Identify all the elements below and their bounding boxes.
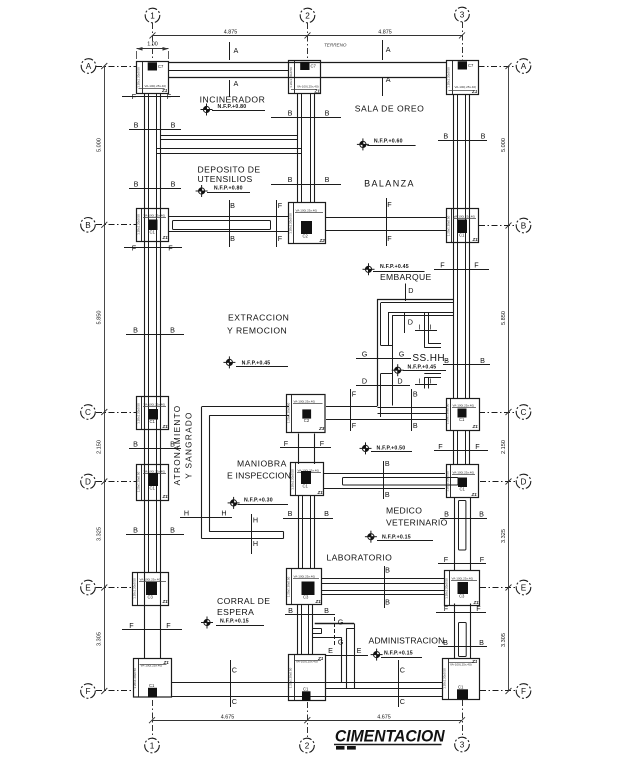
svg-text:BALANZA: BALANZA xyxy=(364,178,415,188)
svg-text:ESPERA: ESPERA xyxy=(217,607,254,617)
section marker F-F below E3 xyxy=(436,612,486,614)
section marker A-A left (top wall) xyxy=(229,42,231,60)
SS.HH. toilet partition lower xyxy=(424,377,441,379)
svg-text:Z1: Z1 xyxy=(317,490,324,495)
footing/column B1 (grid1-row B) C1 Z1 xyxy=(137,209,169,242)
wall maniobra pen west xyxy=(201,407,203,539)
section marker B-B grid1 mid xyxy=(126,334,184,336)
svg-text:F: F xyxy=(438,442,443,451)
svg-text:5.000: 5.000 xyxy=(97,138,103,152)
footing/column B3 (grid3-row B) C1 Z1 xyxy=(447,209,479,243)
svg-text:2.150: 2.150 xyxy=(501,440,507,454)
svg-text:B: B xyxy=(288,509,293,518)
section marker I-I SS.HH. lower xyxy=(415,384,437,386)
svg-text:1.20x1.20x0.50: 1.20x1.20x0.50 xyxy=(136,471,140,492)
svg-text:F: F xyxy=(521,687,526,696)
svg-text:5.000: 5.000 xyxy=(501,138,507,152)
section marker F-F below D3 xyxy=(434,450,488,452)
svg-text:F: F xyxy=(320,439,325,448)
svg-text:F: F xyxy=(284,439,289,448)
svg-text:N.F.P.+0.15: N.F.P.+0.15 xyxy=(382,535,411,541)
grid bubble C right xyxy=(516,405,531,420)
footing/column C1 (grid1-row C) C1 Z1 xyxy=(137,397,169,430)
svg-text:MANIOBRA: MANIOBRA xyxy=(237,459,287,469)
wall admin west (double) xyxy=(354,624,356,690)
footing/column C2 (grid2-row C) C2 Z3 xyxy=(287,395,326,433)
svg-text:VA-100(.25x.40): VA-100(.25x.40) xyxy=(296,209,318,213)
svg-text:VA-100(.25x.40): VA-100(.25x.40) xyxy=(450,663,472,667)
svg-text:F: F xyxy=(166,621,171,630)
svg-text:B: B xyxy=(288,606,293,615)
svg-text:CORRAL DE: CORRAL DE xyxy=(217,596,270,606)
svg-text:C1: C1 xyxy=(460,487,466,492)
svg-text:G: G xyxy=(338,618,344,627)
svg-text:F: F xyxy=(132,92,137,101)
svg-text:F: F xyxy=(132,244,137,253)
svg-text:C: C xyxy=(232,697,237,706)
grid line 1 bottom stub xyxy=(152,700,154,738)
svg-text:1.20x1.20x0.50: 1.20x1.20x0.50 xyxy=(446,215,450,236)
svg-text:F: F xyxy=(440,261,445,270)
svg-text:Y REMOCION: Y REMOCION xyxy=(227,326,287,336)
svg-text:1.20x1.20x0.50: 1.20x1.20x0.50 xyxy=(445,403,449,424)
footing/column E3 (grid3-row E) C3 Z1 xyxy=(445,571,480,606)
grid line A right stub xyxy=(479,66,517,68)
grid line 1 top stub xyxy=(152,23,154,60)
svg-text:1.20x1.20x0.50: 1.20x1.20x0.50 xyxy=(136,214,140,235)
svg-text:F: F xyxy=(278,234,283,243)
svg-text:1.20x1.20x0.50: 1.20x1.20x0.50 xyxy=(136,403,140,424)
svg-text:5.850: 5.850 xyxy=(501,311,507,325)
grid line D left stub xyxy=(96,481,137,483)
wall admin jog lower vertical xyxy=(341,637,343,682)
grid bubble C left xyxy=(81,405,96,420)
svg-text:F: F xyxy=(444,604,449,613)
svg-text:4.675: 4.675 xyxy=(221,715,235,721)
svg-text:N.F.P.+0.80: N.F.P.+0.80 xyxy=(218,104,247,110)
grid line C left stub xyxy=(96,412,137,414)
svg-text:Z1: Z1 xyxy=(472,424,479,429)
svg-text:B: B xyxy=(324,509,329,518)
svg-text:VA-100(.25x.40): VA-100(.25x.40) xyxy=(144,214,166,218)
section marker B-B row E wall xyxy=(384,566,386,608)
grid bubble 2 bottom xyxy=(300,738,315,753)
grid bubble D left xyxy=(81,474,96,489)
grid bubble 3 top xyxy=(455,7,470,22)
elevation N.F.P.+0.15 administracion xyxy=(371,649,383,661)
svg-text:H: H xyxy=(221,509,226,518)
svg-text:3.305: 3.305 xyxy=(501,633,507,647)
svg-text:C3: C3 xyxy=(459,594,465,599)
svg-text:1.20x1.20x0.50: 1.20x1.20x0.50 xyxy=(286,576,290,597)
section marker B-B grid3 E-F xyxy=(438,646,487,648)
svg-text:H: H xyxy=(184,509,189,518)
svg-text:F: F xyxy=(475,442,480,451)
svg-text:F: F xyxy=(167,92,172,101)
grid bubble 3 bottom xyxy=(455,737,470,752)
wall admin jog upper horizontal xyxy=(315,623,354,625)
section marker B-B grid1 below C1 xyxy=(129,448,181,450)
svg-text:3.325: 3.325 xyxy=(501,529,507,543)
svg-text:3.325: 3.325 xyxy=(97,527,103,541)
svg-text:SALA DE OREO: SALA DE OREO xyxy=(355,104,425,114)
svg-text:C2: C2 xyxy=(304,418,310,423)
elevation N.F.P.+0.80 deposito xyxy=(196,185,208,197)
svg-text:B: B xyxy=(134,121,139,130)
svg-text:B: B xyxy=(85,221,91,230)
svg-text:1.20x1.20x0.50: 1.20x1.20x0.50 xyxy=(137,67,141,88)
svg-text:1.20x1.20x0.50: 1.20x1.20x0.50 xyxy=(289,667,293,688)
svg-text:B: B xyxy=(521,222,527,231)
svg-text:LABORATORIO: LABORATORIO xyxy=(327,553,393,563)
section marker B-B grid2 second xyxy=(271,184,341,186)
svg-text:C1: C1 xyxy=(303,687,309,692)
svg-text:B: B xyxy=(479,638,484,647)
svg-text:Z1: Z1 xyxy=(471,89,478,94)
svg-text:2.150: 2.150 xyxy=(97,440,103,454)
svg-text:C: C xyxy=(232,666,237,675)
svg-text:C1: C1 xyxy=(303,484,309,489)
wall row C grid2-grid3 footing lines xyxy=(326,406,377,408)
svg-text:F: F xyxy=(444,555,449,564)
section marker B-B grid1 lower xyxy=(126,534,184,536)
wall SS.HH. west inner xyxy=(388,312,390,346)
svg-text:CIMENTACION: CIMENTACION xyxy=(335,727,445,745)
grid bubble F right xyxy=(516,684,531,699)
svg-text:VA-100(.25x.40): VA-100(.25x.40) xyxy=(454,215,476,219)
grid line 2 bottom stub xyxy=(307,702,309,738)
svg-text:Z1: Z1 xyxy=(162,599,169,604)
svg-text:D: D xyxy=(408,286,413,295)
svg-text:D: D xyxy=(85,478,91,487)
elevation N.F.P.+0.50 laboratorio zone xyxy=(360,442,372,454)
top dimension line 4.875 + 4.875 xyxy=(153,35,463,37)
elevation N.F.P.+0.60 sala de oreo xyxy=(357,138,369,150)
svg-text:Z1: Z1 xyxy=(315,599,322,604)
wall row E grid2-grid3 (4 lines) xyxy=(322,578,445,580)
wall grid 2 segment A-B (4 lines) xyxy=(297,94,299,203)
svg-text:VA-100(.25x.40): VA-100(.25x.40) xyxy=(453,471,475,475)
svg-text:3: 3 xyxy=(460,741,465,750)
svg-text:N.F.P.+0.45: N.F.P.+0.45 xyxy=(408,364,437,370)
svg-text:N.F.P.+0.80: N.F.P.+0.80 xyxy=(214,186,243,192)
right vertical dimension line xyxy=(508,66,510,691)
grid line A left stub xyxy=(96,66,137,68)
svg-text:B: B xyxy=(171,180,176,189)
footing/column D2 (grid2-row D) C1 Z1 xyxy=(291,463,324,496)
svg-text:Y SANGRADO: Y SANGRADO xyxy=(184,411,193,478)
elevation N.F.P.+0.30 maniobra xyxy=(228,497,240,509)
svg-text:2: 2 xyxy=(305,742,310,751)
grid bubble 2 top xyxy=(300,8,315,23)
grid bubble 1 top xyxy=(145,8,160,23)
svg-text:C1: C1 xyxy=(458,685,464,690)
svg-text:4.875: 4.875 xyxy=(224,29,238,35)
svg-text:ATRONAMIENTO: ATRONAMIENTO xyxy=(173,405,182,486)
svg-text:E INSPECCION: E INSPECCION xyxy=(227,471,291,481)
svg-text:N.F.P.+0.15: N.F.P.+0.15 xyxy=(384,650,413,656)
section marker B-B row C wall xyxy=(411,389,413,431)
svg-text:Z1: Z1 xyxy=(472,237,479,242)
left vertical dimension line xyxy=(104,66,106,691)
svg-text:A: A xyxy=(234,46,239,55)
wall grid 3 segment A-C (4 lines) xyxy=(453,95,455,399)
svg-text:1.20x1.20x0.50: 1.20x1.20x0.50 xyxy=(443,668,447,689)
svg-text:A: A xyxy=(234,79,239,88)
wall grid 2 segment E-F (4 lines) xyxy=(297,605,299,655)
svg-text:F: F xyxy=(352,421,357,430)
svg-text:A: A xyxy=(521,62,527,71)
grid line F left stub xyxy=(96,690,134,692)
svg-text:G: G xyxy=(399,350,405,359)
dimension 1.00 over footing A1 xyxy=(137,48,169,50)
section marker G-G admin jog xyxy=(334,617,336,646)
section marker B-B grid3 upper xyxy=(438,140,487,142)
svg-text:C7: C7 xyxy=(158,64,164,69)
svg-text:C2: C2 xyxy=(303,234,309,239)
svg-text:EXTRACCION: EXTRACCION xyxy=(228,312,289,322)
svg-text:1.20x1.20x0.50: 1.20x1.20x0.50 xyxy=(444,578,448,599)
svg-text:1: 1 xyxy=(150,742,155,751)
svg-text:MEDICO: MEDICO xyxy=(386,506,422,516)
wall SS.HH. north inner xyxy=(389,312,454,314)
wall stub notch on grid 2 xyxy=(313,628,322,630)
section marker C-C row F wall left xyxy=(230,660,232,707)
svg-text:VA-100(.25x.40): VA-100(.25x.40) xyxy=(452,577,474,581)
tie beam row D grid2-grid3 with inner beam xyxy=(324,473,445,475)
svg-text:E: E xyxy=(521,584,527,593)
section marker B-B grid2 D-E xyxy=(283,518,333,520)
svg-text:G: G xyxy=(338,638,344,647)
wall grid 1 west exterior (4 lines) xyxy=(144,94,146,660)
svg-text:F: F xyxy=(387,234,392,243)
grid bubble 1 bottom xyxy=(145,738,160,753)
grid bubble E left xyxy=(81,580,96,595)
footing/column F3 (grid3-row F) C1 Z1 xyxy=(443,659,480,700)
svg-text:B: B xyxy=(133,440,138,449)
section marker F-F footing E1 xyxy=(122,629,182,631)
svg-text:TERRENO: TERRENO xyxy=(324,43,347,48)
svg-text:C: C xyxy=(400,666,405,675)
section marker B-B grid3 D-E xyxy=(440,518,487,520)
svg-text:EMBARQUE: EMBARQUE xyxy=(380,272,432,282)
grid bubble E right xyxy=(516,580,531,595)
svg-text:Z1: Z1 xyxy=(314,89,321,94)
svg-text:ADMINISTRACION: ADMINISTRACION xyxy=(369,636,445,646)
svg-text:N.F.P.+0.50: N.F.P.+0.50 xyxy=(377,446,406,452)
svg-text:B: B xyxy=(413,390,418,399)
svg-text:3: 3 xyxy=(460,11,465,20)
svg-text:F: F xyxy=(480,555,485,564)
svg-text:Z1: Z1 xyxy=(162,235,169,240)
svg-text:Z1: Z1 xyxy=(163,660,170,665)
wall maniobra pen north (to footing C2) xyxy=(202,406,290,408)
svg-text:A: A xyxy=(86,62,92,71)
svg-text:F: F xyxy=(476,604,481,613)
svg-text:B: B xyxy=(171,121,176,130)
grid line C right stub xyxy=(479,412,516,414)
svg-text:B: B xyxy=(325,109,330,118)
svg-text:Z2: Z2 xyxy=(319,238,326,243)
svg-text:B: B xyxy=(413,421,418,430)
svg-text:C1: C1 xyxy=(459,233,465,238)
footing/column F1 (grid1-row F) C1 Z1 xyxy=(134,659,172,698)
svg-text:G: G xyxy=(362,350,368,359)
footing/column B2 (grid2-row B) C2 Z2 xyxy=(289,203,326,244)
svg-text:F: F xyxy=(474,261,479,270)
svg-text:I: I xyxy=(430,323,432,332)
footing/column E1 (grid1-row E) C3 Z1 xyxy=(133,573,169,606)
footing/column C3 (grid3-row C) C1 Z1 xyxy=(447,399,480,431)
wall grid 2 segment C-D (2 lines) xyxy=(298,434,300,465)
svg-text:F: F xyxy=(278,201,283,210)
svg-text:D: D xyxy=(362,377,367,386)
svg-text:B: B xyxy=(385,566,390,575)
wall maniobra pen south xyxy=(209,531,283,533)
svg-text:B: B xyxy=(479,510,484,519)
svg-text:B: B xyxy=(288,109,293,118)
wall grid 2 segment D-E (4 lines) xyxy=(298,496,300,569)
elevation N.F.P.+0.15 medico xyxy=(365,531,377,543)
svg-text:C: C xyxy=(521,408,527,417)
svg-text:1.00: 1.00 xyxy=(147,41,158,47)
section marker G-G SS.HH. west xyxy=(356,358,411,360)
section marker F-F grid2 C-D xyxy=(280,447,331,449)
tie beam row B grid1-grid2 with inner beam xyxy=(169,216,289,218)
svg-text:N.F.P.+0.30: N.F.P.+0.30 xyxy=(244,498,273,504)
grid line D right stub xyxy=(480,481,516,483)
svg-text:2: 2 xyxy=(305,12,310,21)
section marker F-F row C wall xyxy=(350,389,352,431)
svg-text:C: C xyxy=(400,697,405,706)
svg-text:C7: C7 xyxy=(311,63,317,68)
svg-text:B: B xyxy=(385,490,390,499)
svg-text:F: F xyxy=(387,200,392,209)
svg-text:E: E xyxy=(328,646,333,655)
svg-text:Z1: Z1 xyxy=(317,656,324,661)
footing/column E2 (grid2-row E) C3 Z1 xyxy=(287,569,322,605)
svg-text:I: I xyxy=(419,323,421,332)
section marker F-F row B beam right xyxy=(386,198,388,246)
tie beam grid 3 segment D-E with inner beam xyxy=(454,497,456,571)
elevation N.F.P.+0.45 embarque xyxy=(363,263,375,275)
svg-text:A: A xyxy=(386,75,391,84)
svg-text:B: B xyxy=(385,598,390,607)
svg-text:C1: C1 xyxy=(459,417,465,422)
section marker B-B grid2 E-F xyxy=(285,614,335,616)
section marker D inside SS.HH. xyxy=(404,313,406,333)
wall SS.HH. south xyxy=(378,407,447,409)
section marker C-C row F wall right xyxy=(398,660,400,707)
section marker E-E admin xyxy=(326,655,368,657)
svg-text:C1: C1 xyxy=(149,683,155,688)
svg-text:B: B xyxy=(230,234,235,243)
svg-text:4.875: 4.875 xyxy=(378,29,392,35)
footing/column A3 (grid3-row A) C7 Z1 xyxy=(447,61,479,95)
section marker A-A right (top wall) xyxy=(382,40,384,60)
footing/column D1 (grid1-row D) C1 Z1 xyxy=(137,465,169,501)
svg-text:VETERINARIO: VETERINARIO xyxy=(386,518,448,528)
svg-text:1: 1 xyxy=(150,12,155,21)
section marker F-F footing A1 xyxy=(122,96,180,98)
grid bubble A right xyxy=(516,59,531,74)
svg-text:Z1: Z1 xyxy=(471,659,478,664)
footing/column A2 (grid2-row A) C7 Z1 xyxy=(289,61,321,94)
svg-text:VA-100(.25x.40): VA-100(.25x.40) xyxy=(144,470,166,474)
svg-text:H: H xyxy=(253,539,258,548)
section marker B-B grid2 upper xyxy=(271,117,341,119)
grid line F right stub xyxy=(480,690,516,692)
svg-text:B: B xyxy=(481,132,486,141)
wall row A exterior (3 lines) xyxy=(169,62,447,64)
section marker F-F footing B1 xyxy=(124,247,182,249)
section marker B-B grid3 at SS.HH. xyxy=(443,364,490,366)
svg-text:C: C xyxy=(85,408,91,417)
bottom dimension line 4.675 + 4.675 xyxy=(152,720,462,722)
footing/column F2 (grid2-row F) C1 Z1 xyxy=(289,655,326,701)
section marker D embarque xyxy=(405,284,407,302)
svg-text:1.20x1.20x0.50: 1.20x1.20x0.50 xyxy=(289,67,293,88)
svg-text:1.20x1.20x0.50: 1.20x1.20x0.50 xyxy=(132,578,136,599)
svg-text:B: B xyxy=(170,326,175,335)
grid bubble B right xyxy=(516,218,531,233)
SS.HH. toilet partition upper xyxy=(424,313,426,348)
grid line 3 bottom stub xyxy=(462,700,464,737)
svg-text:F: F xyxy=(352,390,357,399)
elevation N.F.P.+0.15 corral xyxy=(201,617,213,629)
wall SS.HH. west outer xyxy=(377,299,379,406)
svg-text:Z1: Z1 xyxy=(162,494,169,499)
wall row F south exterior xyxy=(172,682,444,684)
section marker F-F grid3 B-C xyxy=(434,269,489,271)
footing/column A1 (grid1-row A) C7 Z1 xyxy=(137,62,169,94)
section marker B-B grid1 upper xyxy=(129,129,181,131)
svg-text:C1: C1 xyxy=(150,419,156,424)
svg-text:B: B xyxy=(385,459,390,468)
svg-text:VA-100(.25x.40): VA-100(.25x.40) xyxy=(144,403,166,407)
svg-text:C7: C7 xyxy=(468,63,474,68)
grid line B left stub xyxy=(96,224,137,226)
tie beam grid 3 segment E-F with inner beam xyxy=(454,604,456,660)
grid line B right stub xyxy=(479,225,516,227)
grid bubble F left xyxy=(81,684,96,699)
svg-text:Z1: Z1 xyxy=(471,492,478,497)
grid bubble D right xyxy=(516,474,531,489)
svg-text:B: B xyxy=(288,175,293,184)
elevation N.F.P.+0.80 incinerador xyxy=(201,104,213,116)
svg-text:1.20x1.20x0.50: 1.20x1.20x0.50 xyxy=(445,471,449,492)
svg-text:N.F.P.+0.45: N.F.P.+0.45 xyxy=(380,264,409,270)
wall divider incinerador/deposito (4 lines) xyxy=(161,135,298,137)
svg-text:DEPOSITO DE: DEPOSITO DE xyxy=(198,164,261,174)
section marker F-F above E3 xyxy=(438,563,486,565)
section marker D-D SS.HH. west xyxy=(356,385,410,387)
svg-text:5.850: 5.850 xyxy=(97,311,103,325)
svg-text:B: B xyxy=(133,526,138,535)
svg-text:4.675: 4.675 xyxy=(377,715,391,721)
section marker B-B row D beam xyxy=(383,461,385,499)
section marker H-H maniobra west xyxy=(180,517,232,519)
svg-text:B: B xyxy=(324,606,329,615)
svg-text:1.20x1.20x0.50: 1.20x1.20x0.50 xyxy=(286,402,290,423)
svg-text:F: F xyxy=(168,244,173,253)
grid line 2 top stub xyxy=(307,23,309,60)
svg-text:D: D xyxy=(521,478,527,487)
footing/column D3 (grid3-row D) C1 Z1 xyxy=(447,465,479,498)
svg-text:B: B xyxy=(134,180,139,189)
svg-text:N.F.P.+0.60: N.F.P.+0.60 xyxy=(374,138,403,144)
grid line E left stub xyxy=(96,587,133,589)
